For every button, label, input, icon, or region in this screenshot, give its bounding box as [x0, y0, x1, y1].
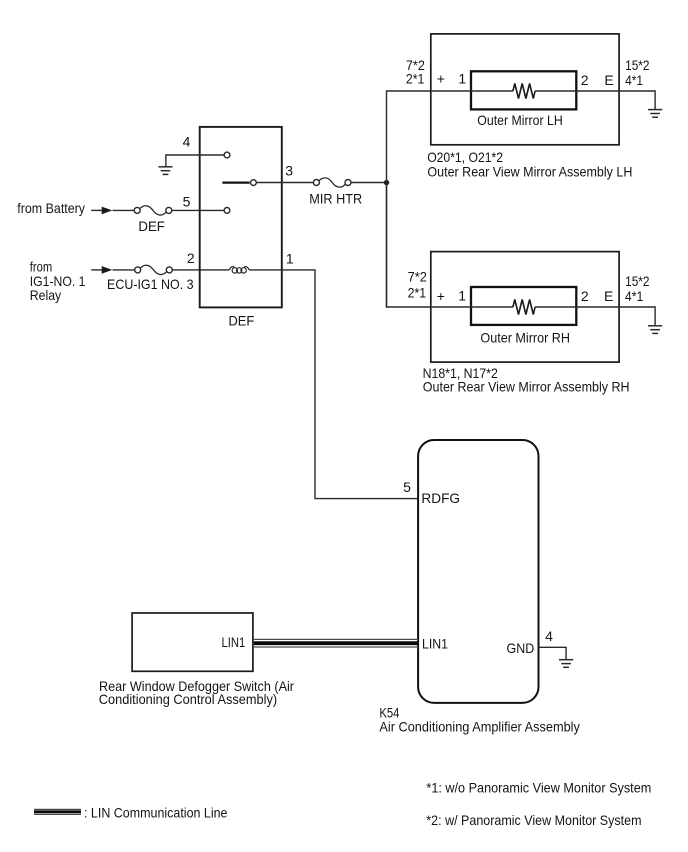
svg-text:Relay: Relay: [30, 287, 61, 303]
svg-text:Outer Mirror LH: Outer Mirror LH: [477, 112, 562, 128]
fuse DEF: [134, 206, 172, 215]
relay switch arm pin 3: [222, 181, 249, 183]
svg-text:LIN1: LIN1: [222, 634, 246, 650]
svg-text:ECU-IG1 NO. 3: ECU-IG1 NO. 3: [107, 276, 194, 292]
ground (relay pin 4): [158, 167, 172, 175]
svg-text:5: 5: [403, 479, 411, 495]
wire junction up to Outer Mirror LH: [387, 91, 470, 307]
svg-text:E: E: [604, 288, 613, 304]
svg-text:DEF: DEF: [138, 218, 165, 234]
svg-text:Air Conditioning Amplifier Ass: Air Conditioning Amplifier Assembly: [379, 719, 580, 735]
svg-text:15*2: 15*2: [625, 273, 650, 289]
svg-text:4: 4: [183, 134, 191, 150]
wire fuse to relay pin 2: [172, 269, 229, 271]
inner mirror heater box LH: [471, 71, 576, 109]
wire resistor to ground LH: [535, 91, 655, 109]
resistor Outer Mirror LH: [513, 84, 535, 99]
wire pin 4 to ground: [166, 155, 224, 167]
svg-text:2: 2: [581, 72, 589, 88]
svg-text:Conditioning Control Assembly): Conditioning Control Assembly): [99, 691, 277, 707]
ground (LH mirror): [648, 110, 662, 118]
ground (K54 GND): [559, 660, 573, 668]
svg-text:DEF: DEF: [229, 312, 255, 328]
wire pin 1 down to K54 RDFG: [282, 270, 419, 499]
svg-text:5: 5: [183, 194, 191, 210]
svg-text:4*1: 4*1: [625, 72, 643, 88]
wire from IG1-NO.1 relay with arrow: [91, 269, 103, 271]
wire resistor to ground RH: [535, 307, 655, 325]
wire coil to pin 1: [249, 269, 282, 271]
wire into resistor LH: [470, 90, 513, 92]
svg-text:+: +: [437, 71, 445, 87]
ground (RH mirror): [648, 326, 662, 334]
svg-text:RDFG: RDFG: [421, 490, 460, 506]
wire fuse MIR HTR to junction: [351, 182, 387, 184]
wire pin 3 to fuse MIR HTR: [256, 182, 313, 184]
svg-text:1: 1: [286, 250, 294, 266]
svg-text:Outer Rear View Mirror Assembl: Outer Rear View Mirror Assembly RH: [423, 379, 630, 395]
LIN communication line: [254, 638, 418, 640]
resistor Outer Mirror RH: [513, 300, 535, 315]
node junction dot: [384, 180, 389, 185]
svg-text:*2: w/ Panoramic View Monitor: *2: w/ Panoramic View Monitor System: [426, 812, 641, 828]
K54 Air Conditioning Amplifier Assembly box: [418, 440, 538, 703]
wire into resistor RH: [470, 306, 513, 308]
relay box DEF: [200, 127, 282, 308]
svg-text:4: 4: [545, 628, 553, 644]
svg-text:4*1: 4*1: [625, 288, 644, 304]
svg-text:MIR HTR: MIR HTR: [309, 190, 362, 206]
wire from Battery with arrow: [91, 209, 103, 211]
svg-text:1: 1: [458, 287, 466, 303]
Outer Rear View Mirror Assembly RH box: [431, 252, 619, 363]
wire fuse DEF to relay pin 5: [172, 209, 224, 211]
inner mirror heater box RH: [471, 287, 576, 325]
svg-text:E: E: [604, 72, 613, 88]
wire GND to ground: [539, 647, 567, 659]
svg-text:1: 1: [458, 71, 466, 87]
relay coil pins 2-1: [229, 267, 234, 270]
relay contact pin 4: [224, 152, 230, 158]
svg-text:LIN1: LIN1: [422, 635, 448, 651]
svg-text:: LIN Communication Line: : LIN Communication Line: [84, 805, 228, 821]
Outer Rear View Mirror Assembly LH box: [431, 34, 619, 145]
svg-text:15*2: 15*2: [625, 57, 650, 73]
svg-text:2*1: 2*1: [406, 71, 425, 87]
Rear Window Defogger Switch box: [132, 613, 253, 671]
svg-text:*1: w/o Panoramic View Monitor: *1: w/o Panoramic View Monitor System: [426, 780, 651, 796]
svg-text:from Battery: from Battery: [17, 200, 85, 216]
svg-text:Outer Rear View Mirror Assembl: Outer Rear View Mirror Assembly LH: [427, 163, 632, 179]
svg-text:2: 2: [581, 288, 589, 304]
fuse ECU-IG1 NO. 3: [135, 265, 173, 274]
wire junction down to Outer Mirror RH: [387, 183, 470, 308]
svg-text:GND: GND: [507, 640, 535, 656]
fuse MIR HTR: [313, 178, 351, 187]
svg-text:+: +: [437, 288, 445, 304]
svg-text:3: 3: [285, 162, 293, 178]
legend LIN communication line symbol: [34, 809, 81, 811]
svg-text:7*2: 7*2: [408, 269, 427, 285]
svg-text:2: 2: [187, 250, 195, 266]
svg-text:Outer Mirror RH: Outer Mirror RH: [480, 329, 570, 345]
svg-text:2*1: 2*1: [408, 285, 427, 301]
relay contact pin 5: [224, 208, 230, 214]
